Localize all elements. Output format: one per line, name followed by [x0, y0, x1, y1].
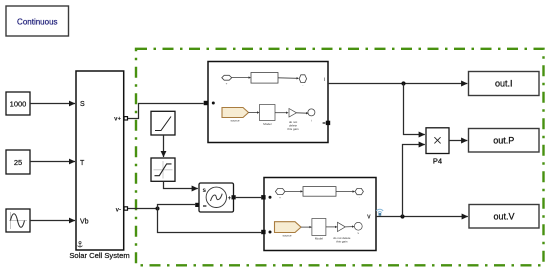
wire i node -> P4 input 1	[404, 84, 425, 135]
signal logging badge	[376, 209, 383, 212]
svg-text:out.V: out.V	[493, 212, 514, 222]
internal wire	[285, 190, 302, 192]
wire sine -> Vb	[30, 220, 75, 222]
svg-text:Solar Cell System: Solar Cell System	[69, 251, 129, 260]
node on i wire	[401, 81, 405, 85]
internal: Model block	[260, 105, 276, 121]
wire ramp -> saturation	[163, 135, 165, 157]
current sensor subsystem	[204, 62, 330, 143]
wire V+ -> current sensor subsystem	[128, 104, 204, 119]
svg-text:S: S	[80, 101, 85, 108]
internal wire	[301, 226, 311, 228]
svg-text:T: T	[80, 160, 85, 167]
wire node -> voltage sensor minus	[158, 209, 262, 233]
node on V wire	[400, 214, 404, 218]
internal wire	[249, 112, 259, 114]
internal: left port oval	[222, 75, 232, 80]
svg-text:Continuous: Continuous	[17, 17, 57, 26]
internal: gain triangle	[338, 222, 346, 231]
svg-text:V: V	[367, 215, 371, 221]
internal wire	[326, 226, 337, 228]
voltage sensor subsystem	[261, 178, 376, 251]
input physical port	[204, 101, 208, 105]
svg-text:source: source	[282, 233, 291, 237]
svg-text:+: +	[226, 82, 228, 86]
svg-text:Vb: Vb	[80, 219, 89, 226]
wire CVS plus -> voltage sensor plus	[236, 197, 262, 199]
product block P4	[426, 128, 449, 166]
svg-text:out.P: out.P	[493, 136, 514, 146]
internal: source block	[275, 222, 302, 233]
constant block 1000	[6, 92, 30, 115]
wire i -> out.I	[328, 83, 467, 85]
internal: right port oval	[299, 75, 306, 83]
wire P4 -> out.P	[449, 140, 467, 142]
svg-text:this gain: this gain	[287, 127, 299, 131]
svg-text:Model: Model	[315, 236, 324, 240]
svg-text:+: +	[279, 196, 281, 200]
controlled voltage source	[195, 183, 236, 212]
area annotation green dash-dot border	[136, 49, 544, 265]
internal wire	[278, 77, 298, 80]
svg-text:+: +	[228, 196, 232, 202]
internal: resistance rect	[251, 73, 278, 84]
internal wire	[336, 190, 354, 192]
internal wire	[275, 112, 288, 114]
wire 1000 -> S	[30, 103, 75, 105]
svg-text:s: s	[203, 187, 207, 194]
svg-text:i: i	[324, 77, 325, 83]
internal: resistance rect	[303, 187, 336, 197]
wire V- -> node	[128, 208, 158, 210]
svg-text:-: -	[302, 84, 303, 88]
internal: out circle	[354, 222, 362, 230]
wire 25 -> T	[30, 161, 75, 163]
outport out.P	[469, 129, 540, 153]
wire V -> out.V	[376, 216, 468, 218]
svg-text:source: source	[230, 118, 239, 122]
internal wire	[232, 77, 251, 79]
internal wire	[345, 226, 353, 228]
internal: left hexagon	[275, 189, 285, 195]
svg-text:this gain: this gain	[336, 239, 348, 243]
sine wave source Vb	[6, 209, 30, 232]
svg-text:Model: Model	[263, 122, 272, 126]
svg-text:P4: P4	[433, 157, 442, 166]
internal: source block	[222, 108, 249, 118]
svg-text:out.I: out.I	[495, 79, 513, 89]
svg-text:v-: v-	[116, 207, 121, 213]
wire V node -> P4 input 2	[403, 145, 425, 217]
minus physical port	[323, 122, 326, 124]
svg-text:1000: 1000	[10, 99, 27, 108]
internal: out circle	[308, 109, 315, 116]
outport out.V	[469, 205, 539, 229]
internal: right hexagon	[355, 188, 363, 194]
node on V- wire	[156, 207, 160, 211]
svg-text:-: -	[359, 196, 360, 200]
internal: Model block	[312, 219, 326, 236]
input physical ports	[261, 195, 265, 199]
ramp block	[151, 111, 175, 135]
wire node -> CVS minus	[158, 205, 196, 209]
Solar Cell System subsystem	[69, 71, 129, 260]
wire saturation -> controlled voltage source S	[164, 181, 198, 188]
Continuous block	[6, 6, 69, 36]
outport out.I	[469, 72, 540, 96]
internal wire	[297, 112, 308, 114]
svg-text:25: 25	[14, 158, 22, 167]
saturation block	[151, 158, 175, 181]
svg-text:v+: v+	[114, 117, 121, 123]
physical network anchor icon	[78, 242, 83, 248]
constant block 25	[6, 150, 30, 174]
internal: gain triangle	[289, 109, 297, 118]
